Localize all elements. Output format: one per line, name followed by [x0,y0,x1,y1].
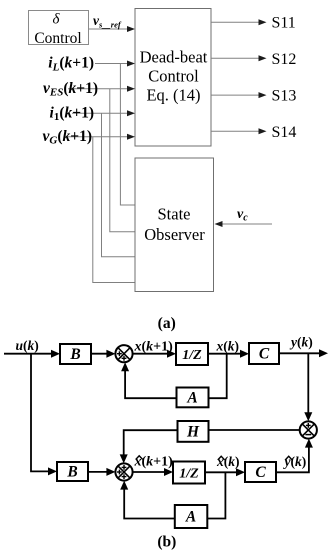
svg-text:Dead-beat: Dead-beat [140,47,208,66]
dead-beat control block [135,9,211,147]
svg-text:S14: S14 [272,124,297,141]
wire x(k) to A1 [209,354,227,399]
wire A2 to adder2 [120,481,175,519]
svg-text:B: B [66,464,77,481]
wire v_s_ref [89,26,136,32]
wire u(k) input [4,350,60,358]
svg-text:Control: Control [34,30,81,47]
wire yhat(k) to adder3 [276,439,313,473]
wire H to adder2 [120,430,178,463]
svg-text:x(k): x(k) [216,454,240,469]
label S14 [272,124,297,141]
svg-text:(a): (a) [158,315,176,332]
gain block B2 [57,462,88,481]
adder J1 [115,345,132,362]
label i1(k+1) [50,104,94,123]
adder J3 [300,421,317,438]
wire B2 to adder2 [88,468,115,476]
label xhat(k+1) [134,455,174,470]
svg-text:A: A [186,389,197,406]
wire iL(k+1) input [95,61,135,67]
label S11 [272,15,296,32]
svg-text:S12: S12 [272,51,297,68]
wire A1 to adder1 [121,362,176,398]
wire S13 output [211,92,267,98]
label v_s_ref [93,13,122,29]
label xhat(k) [216,454,240,469]
svg-text:H: H [186,423,200,440]
wire iL(k+1) tap to observer [120,64,135,206]
delta control block [29,11,89,48]
wire vES(k+1) tap to observer [110,89,135,232]
wire vG(k+1) tap to observer [93,137,135,283]
wire S12 output [211,55,267,61]
wire vG(k+1) input [67,134,135,140]
wire y(k) to adder3 [304,353,312,421]
wire i1(k+1) tap to observer [102,113,136,257]
svg-text:(b): (b) [157,534,176,550]
label x(k+1) [134,340,174,355]
svg-text:S13: S13 [272,88,297,105]
label vES(k+1) [43,80,98,99]
gain block C1 [249,343,279,364]
label (a) [158,315,176,332]
svg-text:Eq. (14): Eq. (14) [146,86,200,105]
wire vES(k+1) input [68,86,135,92]
gain block C2 [245,462,276,482]
wire xhat(k) to A2 [207,472,225,518]
svg-text:u(k): u(k) [16,338,39,353]
delay block 1/Z top [176,343,208,365]
label yhat(k) [283,454,307,469]
wire u branch to B2 [31,354,57,476]
wire delay2 to C2 [205,468,245,476]
wire S14 output [211,128,267,134]
wire vc [215,221,273,227]
wire adder3 to H [209,429,300,431]
gain block B1 [60,344,91,364]
label iL(k+1) [48,55,94,74]
wire B1 to adder1 [91,350,115,358]
svg-text:δ: δ [53,12,61,28]
wire i1(k+1) input [72,110,135,116]
svg-text:y(k): y(k) [283,454,307,469]
label S13 [272,88,297,105]
label (b) [157,534,176,550]
svg-text:C: C [255,464,266,481]
gain block A1 [177,388,209,408]
label vG(k+1) [42,128,92,147]
label x(k) [216,339,240,354]
wire adder2 to delay2 [133,468,173,476]
gain block A2 [175,505,208,528]
svg-text:State: State [158,205,191,224]
wire adder1 to delay1 [133,350,176,358]
svg-text:Observer: Observer [144,225,205,244]
gain block H [178,421,209,442]
svg-text:1/Z: 1/Z [182,348,202,363]
label vc [237,207,248,224]
svg-text:A: A [185,509,196,526]
label S12 [272,51,297,68]
svg-text:Control: Control [148,67,199,86]
delay block 1/Z bottom [173,462,205,484]
state observer block [135,158,214,292]
svg-text:C: C [259,346,270,363]
label y(k) [289,335,313,350]
svg-text:x(k): x(k) [216,339,240,354]
svg-text:B: B [69,346,80,363]
wire delay1 to C1 [208,350,249,358]
svg-text:S11: S11 [272,15,296,32]
wire y(k) output [279,349,328,357]
adder J2 [115,463,132,480]
wire S11 output [211,19,267,25]
svg-text:1/Z: 1/Z [179,467,199,482]
label u(k) [16,338,39,353]
svg-text:y(k): y(k) [289,335,313,350]
